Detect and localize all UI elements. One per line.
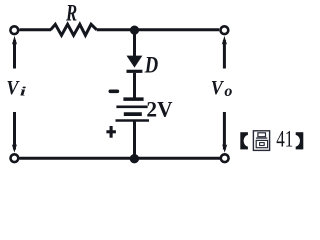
svg-text:o: o — [224, 83, 232, 100]
svg-text:2V: 2V — [146, 97, 172, 122]
svg-text:V: V — [6, 77, 20, 99]
svg-text:i: i — [20, 84, 27, 99]
svg-text:R: R — [65, 0, 77, 25]
svg-text:D: D — [144, 52, 158, 78]
svg-text:V: V — [211, 77, 225, 99]
